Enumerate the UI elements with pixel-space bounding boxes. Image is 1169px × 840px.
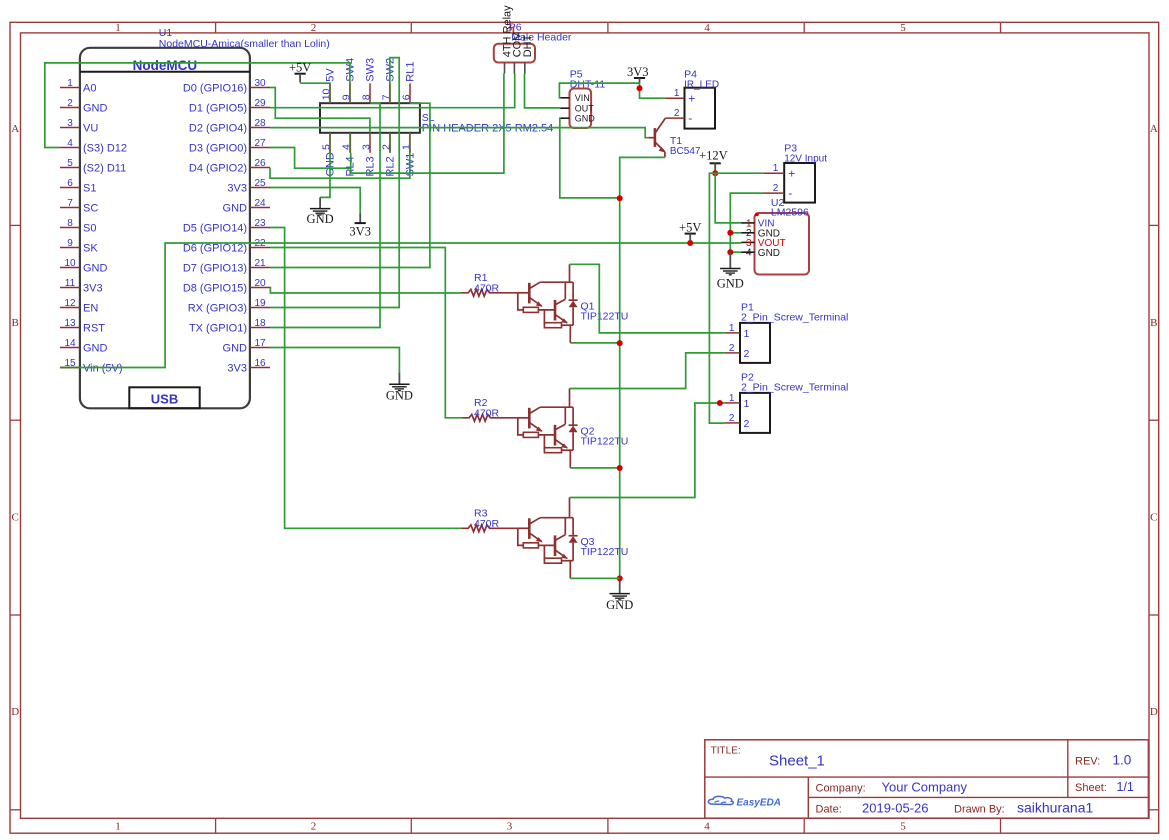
svg-text:4: 4 (704, 820, 710, 832)
svg-text:TITLE:: TITLE: (711, 746, 741, 757)
U1 pin 7 SC (60, 198, 98, 214)
svg-text:1: 1 (744, 328, 750, 340)
transistor Q1 TIP122TU (518, 264, 578, 343)
svg-text:TX (GPIO1): TX (GPIO1) (189, 323, 247, 335)
wire net DHT-D1 from U1 pin29 to P6 COM (270, 74, 515, 108)
U1 pin 21 D7 (GPIO13) (183, 258, 270, 274)
svg-text:470R: 470R (474, 518, 500, 530)
svg-text:SC: SC (83, 203, 98, 215)
svg-text:Sheet_1: Sheet_1 (769, 753, 825, 770)
svg-text:4: 4 (746, 248, 752, 259)
component U1 NodeMCU body (80, 48, 250, 409)
svg-text:SK: SK (83, 243, 98, 255)
svg-text:D5 (GPIO14): D5 (GPIO14) (183, 223, 247, 235)
wire net Q3B from U1 pin23 to R3 (270, 228, 461, 529)
wire 3V3 from U1 pin25 (270, 188, 360, 214)
svg-text:7: 7 (67, 198, 73, 209)
svg-text:EasyEDA: EasyEDA (737, 798, 781, 809)
svg-text:5: 5 (67, 158, 73, 169)
svg-text:3V3: 3V3 (227, 183, 247, 195)
U1 pin 6 S1 (60, 178, 96, 194)
P6 pin 1 label 4TH Relay (502, 5, 514, 74)
svg-text:GND: GND (307, 212, 334, 226)
svg-text:17: 17 (254, 338, 266, 349)
svg-text:TIP122TU: TIP122TU (581, 435, 629, 447)
U1 pin 13 RST (60, 318, 105, 334)
junction U2 GND pins (727, 230, 733, 255)
svg-text:-: - (788, 186, 792, 200)
P2 reference designator and value (741, 372, 848, 394)
svg-text:VIN: VIN (575, 93, 590, 103)
svg-text:VU: VU (83, 123, 98, 135)
svg-text:Your Company: Your Company (882, 780, 968, 795)
junction rail Q2 (617, 465, 623, 471)
connector P4 IR_LED body (685, 88, 716, 129)
svg-text:10: 10 (64, 258, 76, 269)
wire GND from U1 pin17 (270, 348, 399, 373)
svg-text:4: 4 (67, 138, 73, 149)
svg-text:+12V: +12V (699, 149, 728, 163)
svg-text:GND: GND (386, 389, 413, 403)
U1 pin 22 D6 (GPIO12) (183, 238, 270, 254)
U1 pin 1 A0 (60, 78, 96, 94)
svg-text:SW3: SW3 (364, 58, 376, 82)
U1 pin 23 D5 (GPIO14) (183, 218, 270, 234)
svg-text:LM2596: LM2596 (771, 206, 809, 218)
svg-text:12: 12 (64, 298, 76, 309)
resistor R1 470R (461, 272, 517, 296)
ground symbol below U2 (717, 252, 744, 290)
svg-text:Sheet:: Sheet: (1075, 782, 1107, 794)
wire net RL1 from U1 pin21 to SL pin6 (270, 103, 430, 267)
P3 pin 1 + (764, 163, 795, 180)
svg-text:TIP122TU: TIP122TU (581, 546, 629, 558)
U1 pin 3 VU (60, 118, 98, 134)
wire Q3 emitter to rail (570, 577, 619, 579)
U1 pin 20 D8 (GPIO15) (183, 278, 270, 294)
SL pin 9 net label SW4 (340, 58, 356, 103)
svg-text:470R: 470R (474, 282, 500, 294)
svg-text:RL1: RL1 (404, 62, 416, 82)
title block (705, 740, 1149, 818)
ground symbol below U1 (386, 372, 413, 402)
wire net Q1B from U1 pin20 to R1 (270, 288, 461, 294)
U1 pin 2 GND (60, 98, 108, 114)
svg-text:19: 19 (254, 298, 266, 309)
svg-text:C: C (1150, 512, 1157, 524)
svg-text:D0 (GPIO16): D0 (GPIO16) (183, 83, 247, 95)
P3 reference designator and value (784, 142, 827, 164)
svg-text:GND: GND (223, 203, 248, 215)
U1 pin 11 3V3 (60, 278, 103, 294)
power +5V mid symbol (679, 220, 701, 243)
svg-text:USB: USB (151, 391, 178, 406)
wire U2 pin2 stub (730, 232, 741, 234)
svg-text:20: 20 (254, 278, 266, 289)
P4 reference designator and value (684, 69, 719, 91)
svg-text:25: 25 (254, 178, 266, 189)
wire net RL4a from U1 pin27 (270, 148, 351, 169)
wire net SW4 from U1 pin4 to SL pin9 (45, 63, 350, 148)
wire Q1 collector to P1 pin1 (570, 264, 725, 333)
SL pin 5 net label GND (320, 133, 336, 177)
svg-text:IR_LED: IR_LED (684, 80, 719, 91)
power 3V3 near P4 (627, 65, 649, 83)
svg-text:1: 1 (115, 820, 121, 832)
SL pin 1 net label SW1 (400, 133, 416, 177)
junction rail Q1 (617, 340, 623, 346)
wire Q2 emitter to rail (570, 467, 619, 469)
svg-text:2: 2 (380, 144, 392, 150)
svg-text:1: 1 (773, 163, 779, 174)
P6 reference designator and value (509, 21, 572, 43)
svg-text:29: 29 (254, 98, 266, 109)
junction GND rail at P5 (617, 195, 623, 201)
U1 pin 28 D2 (GPIO4) (189, 118, 270, 134)
svg-text:2: 2 (744, 418, 750, 430)
SL pin 8 net label SW3 (360, 58, 376, 103)
wire net SW3 from U1 pin18 to SL pin8 (270, 103, 380, 327)
svg-text:OUT: OUT (575, 104, 595, 114)
svg-text:+5V: +5V (289, 61, 311, 75)
U2 pin 3 VOUT (742, 238, 786, 249)
svg-text:NodeMCU-Amica(smaller than Lol: NodeMCU-Amica(smaller than Lolin) (159, 38, 330, 50)
SL pin 6 net label RL1 (400, 62, 416, 104)
svg-text:12V Input: 12V Input (784, 153, 827, 164)
transistor Q3 TIP122TU (518, 498, 578, 579)
svg-text:24: 24 (254, 198, 266, 209)
svg-text:+: + (788, 166, 795, 180)
U1 value NodeMCU-Amica (159, 38, 330, 50)
svg-text:2: 2 (311, 22, 317, 34)
U2 reference designator and value (771, 197, 809, 219)
resistor R3 470R (461, 508, 517, 532)
connector P1 2_Pin_Screw_Terminal body (740, 323, 770, 363)
P2 pin 2 (725, 413, 750, 430)
svg-text:2019-05-26: 2019-05-26 (862, 801, 929, 816)
U1 pin 15 Vin (5V) (60, 358, 123, 374)
P1 pin 2 (725, 343, 750, 360)
connector SL pin header 2x5 body (320, 103, 420, 133)
svg-text:S1: S1 (83, 183, 96, 195)
svg-text:EN: EN (83, 303, 98, 315)
svg-text:BC547: BC547 (670, 146, 701, 157)
svg-text:DHT-11: DHT-11 (570, 78, 606, 90)
svg-text:GND: GND (83, 343, 108, 355)
svg-text:3V3: 3V3 (83, 283, 103, 295)
svg-text:DHT: DHT (522, 34, 534, 57)
svg-text:6: 6 (400, 94, 412, 100)
svg-text:2: 2 (311, 820, 317, 832)
svg-text:GND: GND (717, 276, 744, 290)
svg-text:S0: S0 (83, 223, 96, 235)
svg-text:1: 1 (729, 393, 735, 404)
wire net SW2 from U1 pin19 to SL pin7 (270, 58, 399, 308)
P1 pin 1 (725, 323, 750, 340)
svg-text:5: 5 (900, 22, 906, 34)
Q2 reference designator and value (581, 426, 629, 448)
svg-text:14: 14 (64, 338, 76, 349)
wire net Q2B from U1 pin22 to R2 (270, 248, 462, 418)
svg-text:C: C (12, 512, 19, 524)
junction +12V node (712, 170, 718, 176)
svg-text:1.0: 1.0 (1113, 753, 1132, 768)
svg-text:Company:: Company: (816, 783, 866, 795)
wire Q1 emitter to rail (570, 342, 619, 344)
svg-text:28: 28 (254, 118, 266, 129)
svg-text:-: - (688, 111, 692, 125)
U1 pin 14 GND (60, 338, 108, 354)
svg-text:A0: A0 (83, 83, 96, 95)
U1 pin 18 TX (GPIO1) (189, 318, 270, 334)
U1 pin 16 3V3 (227, 358, 270, 374)
wire net D2 from U1 pin28 to T1 base (270, 128, 648, 138)
svg-text:21: 21 (254, 258, 266, 269)
P5 pin GND (560, 114, 595, 124)
connector P3 12V Input body (784, 163, 815, 203)
svg-text:(S3) D12: (S3) D12 (83, 143, 127, 155)
svg-text:D1 (GPIO5): D1 (GPIO5) (189, 103, 247, 115)
svg-text:1/1: 1/1 (1117, 780, 1134, 794)
svg-text:27: 27 (254, 138, 266, 149)
connector P2 2_Pin_Screw_Terminal body (740, 393, 770, 433)
P6 pin 2 label COM (511, 32, 523, 74)
wire +5V rail from U1 pin15 to U2 VOUT (60, 243, 742, 368)
svg-text:16: 16 (254, 358, 266, 369)
svg-text:D8 (GPIO15): D8 (GPIO15) (183, 283, 247, 295)
U1 pin 25 3V3 (227, 178, 270, 194)
regulator U2 LM2596 body (755, 213, 810, 275)
svg-text:NodeMCU: NodeMCU (133, 58, 198, 73)
svg-text:D: D (11, 706, 19, 718)
T1 reference designator and value (670, 135, 701, 157)
U1 pin 17 GND (223, 338, 270, 354)
svg-text:3: 3 (67, 118, 73, 129)
wire net RL3 from U1 pin30 to SL pin3 (270, 88, 370, 133)
power +12V symbol (699, 149, 728, 173)
svg-text:GND: GND (575, 114, 596, 124)
P1 reference designator and value (741, 302, 848, 324)
wire 3V3 to P5 VIN (559, 83, 639, 98)
svg-text:3V3: 3V3 (349, 224, 371, 238)
svg-text:3V3: 3V3 (627, 65, 649, 79)
svg-text:Date:: Date: (816, 804, 842, 816)
svg-text:D3 (GPIO0): D3 (GPIO0) (189, 143, 247, 155)
svg-text:D7 (GPIO13): D7 (GPIO13) (183, 263, 247, 275)
svg-text:GND: GND (758, 248, 780, 259)
wire P2 pin1 to Q3 collector (570, 403, 725, 498)
svg-text:11: 11 (65, 278, 76, 289)
SL pin 7 net label SW2 (380, 58, 396, 103)
svg-text:REV:: REV: (1075, 756, 1100, 768)
wire GND from SL pin5 (320, 133, 330, 198)
svg-text:RX (GPIO3): RX (GPIO3) (188, 303, 247, 315)
P4 pin 1 + (665, 88, 695, 105)
junction 3V3 node (637, 85, 643, 91)
P4 pin 2 - (665, 108, 692, 125)
svg-text:8: 8 (360, 94, 372, 100)
wire U2 pin4 stub (730, 251, 741, 253)
svg-text:23: 23 (254, 218, 266, 229)
wire T1 emitter to GND rail (620, 157, 665, 578)
SL pin 3 net label RL3 (360, 133, 376, 177)
svg-text:5: 5 (900, 820, 906, 832)
svg-text:2: 2 (729, 343, 735, 354)
svg-text:2: 2 (773, 183, 779, 194)
SL pin 4 net label RL4 (340, 133, 356, 177)
svg-text:1: 1 (115, 22, 121, 34)
svg-text:GND: GND (83, 103, 108, 115)
svg-text:13: 13 (64, 318, 76, 329)
U1 pin 12 EN (60, 298, 98, 314)
svg-text:4: 4 (704, 22, 710, 34)
svg-text:2: 2 (674, 108, 680, 119)
wire +12V to P2 pin2 (709, 173, 724, 423)
Q1 reference designator and value (581, 301, 629, 323)
svg-text:+5V: +5V (679, 220, 701, 234)
svg-text:1: 1 (674, 88, 680, 99)
SL pin 10 net label 5V (320, 68, 336, 104)
svg-text:GND: GND (83, 263, 108, 275)
svg-text:1: 1 (729, 323, 735, 334)
wire +12V to P3 pin1 (715, 172, 764, 174)
P5 pin OUT (560, 104, 594, 114)
svg-text:2: 2 (744, 348, 750, 360)
wire 3V3 to P4 pin1 (640, 83, 666, 98)
U2 pin 4 GND (742, 248, 781, 259)
svg-text:6: 6 (67, 178, 73, 189)
svg-text:GND: GND (606, 598, 633, 612)
U1 pin 10 GND (60, 258, 108, 274)
svg-text:2_Pin_Screw_Terminal: 2_Pin_Screw_Terminal (741, 381, 848, 393)
wire net DHT data P6 to P5 OUT (525, 74, 561, 108)
U1 pin 9 SK (60, 238, 98, 254)
svg-text:Drawn By:: Drawn By: (954, 804, 1005, 816)
svg-text:8: 8 (67, 218, 73, 229)
SL reference designator and value (422, 112, 553, 134)
P2 pin 1 (725, 393, 750, 410)
svg-text:saikhurana1: saikhurana1 (1017, 800, 1093, 816)
U2 pin 2 GND (742, 228, 781, 239)
U1 pin 24 GND (223, 198, 270, 214)
wire P5 GND to rail (560, 118, 620, 198)
P6 pin 3 label DHT (522, 34, 534, 73)
P5 pin VIN (560, 93, 590, 103)
svg-text:1: 1 (744, 398, 750, 410)
transistor Q2 TIP122TU (518, 389, 578, 468)
svg-text:2: 2 (67, 98, 73, 109)
svg-text:3: 3 (360, 144, 372, 150)
svg-text:A: A (1150, 123, 1158, 135)
transistor T1 BC547 (648, 118, 665, 157)
svg-text:3V3: 3V3 (227, 363, 247, 375)
svg-text:470R: 470R (474, 407, 500, 419)
wire net 4TH Relay from SL pin4 to P6 pin1 (350, 74, 504, 174)
svg-text:U1: U1 (159, 27, 173, 39)
U1 pin 19 RX (GPIO3) (188, 298, 270, 314)
U1 USB connector box (129, 387, 199, 408)
svg-text:A: A (11, 123, 19, 135)
U1 pin 29 D1 (GPIO5) (189, 98, 270, 114)
power 3V3 below header (349, 214, 371, 239)
SL pin 2 net label RL2 (380, 133, 396, 177)
connector P6 Male Header body (494, 44, 535, 63)
svg-text:+: + (688, 91, 695, 105)
P5 reference designator and value (570, 68, 606, 90)
junction +5V rail (687, 240, 693, 246)
ground symbol bottom rail (606, 575, 633, 612)
U1 pin 8 S0 (60, 218, 96, 234)
svg-text:GND: GND (223, 343, 248, 355)
svg-text:D6 (GPIO12): D6 (GPIO12) (183, 243, 247, 255)
svg-text:26: 26 (254, 158, 266, 169)
svg-text:D4 (GPIO2): D4 (GPIO2) (189, 163, 247, 175)
component P5 DHT-11 body (570, 89, 592, 129)
U1 pin 4 (S3) D12 (60, 138, 127, 154)
svg-text:3: 3 (507, 820, 513, 832)
EasyEDA logo (708, 796, 781, 808)
wire net SW1 from U1 pin26 to SL pin1 (270, 133, 410, 178)
svg-text:1: 1 (67, 78, 73, 89)
svg-text:9: 9 (67, 238, 73, 249)
svg-text:D: D (1150, 706, 1158, 718)
P3 pin 2 - (764, 183, 792, 200)
svg-text:30: 30 (254, 78, 266, 89)
svg-text:B: B (1150, 317, 1157, 329)
U1 reference designator (159, 27, 173, 39)
Q3 reference designator and value (581, 536, 629, 558)
wire +5V to SL pin10 (300, 83, 330, 103)
U1 pin 27 D3 (GPIO0) (189, 138, 270, 154)
U1 pin 5 (S2) D11 (60, 158, 126, 174)
wire P3 pin2 to U2 GND (730, 193, 764, 252)
svg-text:RST: RST (83, 323, 105, 335)
svg-text:Vin (5V): Vin (5V) (83, 363, 123, 375)
U1 pin 30 D0 (GPIO16) (183, 78, 270, 94)
power +5V at SL pin10 (289, 61, 311, 83)
svg-text:2_Pin_Screw_Terminal: 2_Pin_Screw_Terminal (741, 311, 848, 323)
wire +12V to U2 VIN (715, 173, 741, 223)
svg-text:B: B (12, 317, 19, 329)
ground symbol below SL header (307, 197, 334, 226)
svg-text:5V: 5V (324, 68, 336, 82)
svg-text:2: 2 (729, 413, 735, 424)
resistor R2 470R (462, 397, 518, 421)
svg-text:18: 18 (254, 318, 266, 329)
U2 pin 1 VIN (742, 218, 775, 229)
svg-text:D2 (GPIO4): D2 (GPIO4) (189, 123, 247, 135)
wire P1 pin2 to Q2 collector (570, 353, 725, 389)
svg-text:TIP122TU: TIP122TU (581, 310, 629, 322)
svg-text:(S2) D11: (S2) D11 (83, 163, 126, 175)
U1 pin 26 D4 (GPIO2) (189, 158, 270, 174)
junction P2 pin1 (717, 400, 723, 406)
